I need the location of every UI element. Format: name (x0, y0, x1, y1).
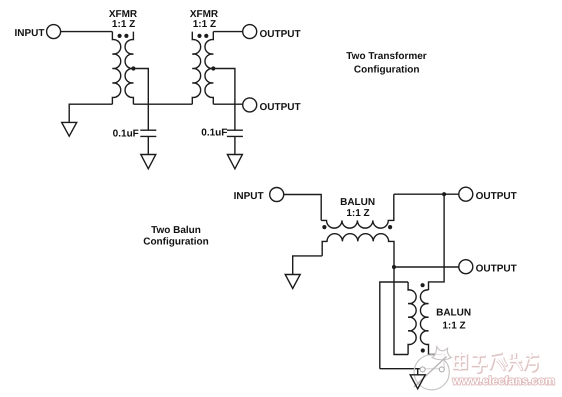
watermark flag curl (432, 346, 451, 360)
terminal OUTPUT 2 (balun) (459, 260, 473, 274)
wire B1 bottom-left to ground (293, 256, 323, 275)
svg-text:www.elecfans.com: www.elecfans.com (452, 375, 555, 387)
svg-text:OUTPUT: OUTPUT (476, 191, 517, 202)
wire junction down to balun B2 secondary top (429, 194, 445, 290)
watermark logo circle (414, 355, 449, 390)
ground G4 (285, 275, 300, 289)
capacitor C1 (140, 130, 156, 136)
wire B2 primary top to bracket (380, 282, 408, 369)
wire input to balun B1 (284, 195, 322, 221)
svg-text:Configuration: Configuration (143, 237, 209, 248)
svg-text:1:1 Z: 1:1 Z (112, 19, 135, 30)
wire T2 secondary bottom to OUTPUT 2 (213, 103, 242, 105)
watermark node circles (420, 367, 425, 372)
wire B2 secondary bottom to ground rail (429, 355, 445, 369)
wire B1 top-right to OUTPUT 1 (balun) (394, 193, 459, 195)
terminal INPUT (top) (47, 25, 61, 39)
wire junction to OUTPUT 2 (balun) (394, 266, 459, 268)
wire T1 bottom to T2 bottom (133, 103, 192, 105)
polarity dot T1 secondary (124, 34, 128, 38)
watermark chinese characters (stylized strokes) (455, 353, 540, 373)
svg-text:OUTPUT: OUTPUT (476, 263, 517, 274)
polarity dot T2 secondary (204, 34, 208, 38)
node tap T2 secondary (211, 66, 215, 70)
ground G1 (62, 122, 77, 136)
node tap T1 secondary (131, 66, 135, 70)
svg-text:INPUT: INPUT (234, 191, 264, 202)
svg-text:OUTPUT: OUTPUT (260, 102, 301, 113)
svg-text:1:1 Z: 1:1 Z (193, 19, 216, 30)
wire input to T1 primary top (61, 31, 113, 33)
svg-text:0.1uF: 0.1uF (201, 127, 227, 138)
wire T1 tap to capacitor C1 (133, 69, 148, 131)
polarity dot B2 bottom (421, 348, 425, 352)
wire T2 tap to capacitor C2 (213, 69, 235, 131)
wire C2 to ground (234, 136, 236, 154)
transformer T1 secondary winding (125, 32, 133, 105)
wire rail to ground symbol (417, 369, 419, 375)
terminal INPUT (balun section) (270, 188, 284, 202)
svg-text:BALUN: BALUN (340, 197, 375, 208)
terminal OUTPUT 1 (top) (243, 25, 257, 39)
balun B1 top winding (321, 194, 394, 228)
polarity dot B1 left (322, 225, 326, 229)
balun B2 secondary winding (420, 290, 428, 355)
capacitor C2 (227, 130, 243, 136)
svg-text:1:1 Z: 1:1 Z (346, 208, 369, 219)
wire T2 secondary top to OUTPUT 1 (213, 31, 242, 33)
ground G2 (141, 155, 156, 169)
ground G3 (227, 155, 242, 169)
transformer T2 secondary winding (205, 32, 213, 105)
transformer T1 primary winding (112, 32, 120, 105)
ground G5 (410, 375, 425, 389)
svg-text:0.1uF: 0.1uF (113, 129, 139, 140)
svg-text:INPUT: INPUT (15, 28, 45, 39)
wire T1 primary bottom to ground (69, 104, 112, 122)
svg-text:OUTPUT: OUTPUT (260, 29, 301, 40)
watermark white band over rail (414, 354, 451, 387)
polarity dot T1 primary (118, 34, 122, 38)
polarity dot T2 primary (197, 34, 201, 38)
balun B2 primary winding (408, 282, 416, 355)
terminal OUTPUT 2 (top section) (243, 98, 257, 112)
polarity dot B1 right (388, 225, 392, 229)
svg-text:1:1 Z: 1:1 Z (442, 321, 465, 332)
svg-text:Two Transformer: Two Transformer (346, 51, 426, 62)
terminal OUTPUT 1 (balun) (459, 187, 473, 201)
transformer T2 primary winding (192, 32, 200, 105)
node junction at output1 branch (442, 192, 446, 196)
watermark arrow line (414, 357, 447, 388)
wire B1 bottom-right down to B2 primary bottom (394, 267, 408, 355)
svg-text:Configuration: Configuration (354, 64, 420, 75)
svg-text:BALUN: BALUN (436, 308, 471, 319)
svg-text:Two Balun: Two Balun (151, 225, 201, 236)
ground rail wire (380, 368, 444, 370)
wire C1 to ground (147, 136, 149, 154)
node junction B1 bottom-right (392, 265, 396, 269)
balun B1 bottom winding (322, 234, 394, 267)
polarity dot B2 top (421, 283, 425, 287)
